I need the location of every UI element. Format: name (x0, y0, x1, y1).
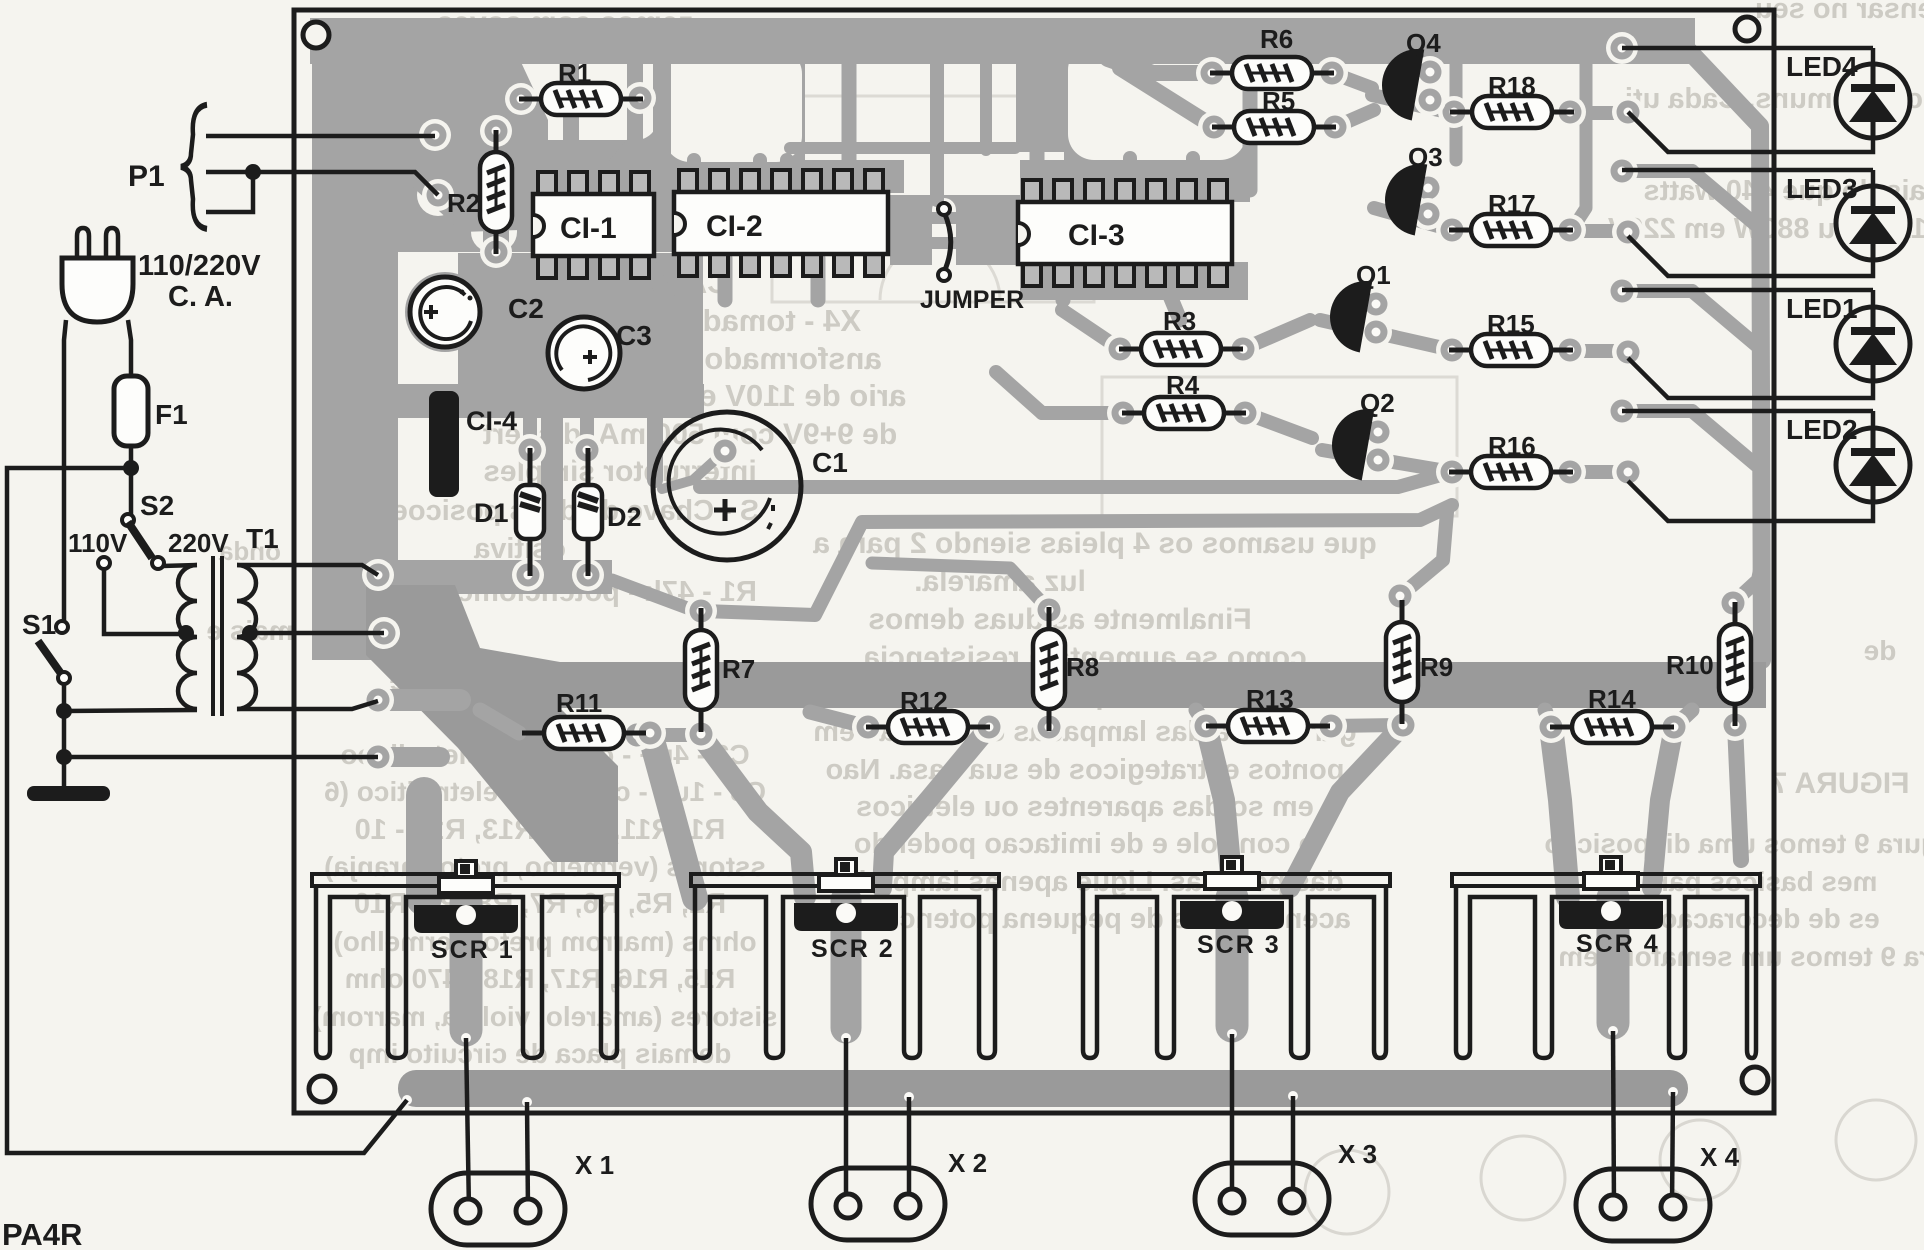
wire primary bottom (64, 710, 197, 711)
wire top-right feeders (1243, 64, 1258, 190)
wire secondary tap to board (250, 631, 384, 636)
svg-text:110/220V: 110/220V (138, 250, 261, 282)
wire X 1 return lead (527, 1102, 528, 1211)
svg-text:D2: D2 (607, 502, 642, 532)
LED LED2 (1836, 428, 1910, 502)
svg-text:R2: R2 (447, 188, 480, 218)
wire left vertical pour column (354, 200, 398, 630)
resistor R11 (522, 717, 646, 749)
capacitor C3 (548, 317, 620, 389)
mounting hole bottom-left (309, 1076, 335, 1102)
svg-text:CI-1: CI-1 (560, 212, 617, 245)
wire trace A (C1 row) (700, 473, 1448, 487)
svg-text:R8: R8 (1066, 652, 1099, 682)
diode D1 (516, 448, 544, 576)
svg-text:LED4: LED4 (1786, 51, 1858, 82)
connector X3 (1195, 1163, 1329, 1235)
resistor R14 (1550, 711, 1674, 743)
wire LED3 box (1628, 170, 1873, 276)
wire pours under C2 C3 (405, 272, 485, 352)
wire band T2 (diode row) (356, 560, 612, 594)
node 220V terminal (152, 557, 164, 569)
svg-text:PA4R: PA4R (2, 1217, 82, 1250)
connector X2 (811, 1168, 945, 1240)
svg-text:es de decoracao: es de decoracao (1660, 903, 1879, 934)
wire mid copper band (556, 662, 1766, 708)
svg-text:R18: R18 (1488, 71, 1536, 101)
wire X 1 cathode lead (466, 1038, 469, 1211)
svg-text:R15: R15 (1487, 309, 1535, 339)
thyristor SCR4 heatsink comb (1452, 874, 1760, 886)
svg-text:D1: D1 (474, 498, 509, 528)
svg-text:pontos estrategicos de sua cas: pontos estrategicos de sua casa. Nao (826, 754, 1345, 786)
resistor R1 (519, 83, 643, 115)
svg-text:SCR 2: SCR 2 (811, 935, 895, 963)
svg-text:CI-2: CI-2 (706, 210, 763, 243)
LED LED1 (1836, 307, 1910, 381)
wire R11 to R7 stub (637, 728, 700, 742)
mounting hole top-right (1735, 17, 1759, 41)
wire feeders to R8 R9 R10 top (872, 563, 1049, 610)
wire secondary top to board (237, 565, 378, 575)
svg-text:JUMPER: JUMPER (920, 286, 1024, 314)
thyristor SCR3 (1180, 857, 1284, 929)
capacitor C2 (410, 277, 480, 347)
AC plug 110/220V (77, 228, 118, 258)
wire trace to R2 (483, 135, 509, 250)
transistor Q4 (1376, 43, 1424, 120)
svg-text:X 2: X 2 (948, 1148, 987, 1178)
wire jumper row traces (890, 212, 1016, 224)
wire jumper feeder (930, 60, 944, 200)
resistor R9 (1386, 600, 1418, 724)
connector X1 (431, 1173, 565, 1245)
svg-text:P1: P1 (128, 160, 165, 193)
svg-text:R1: R1 (558, 58, 591, 88)
wire SCR4 feeders (1551, 727, 1568, 897)
wire SCR2 feeders (701, 736, 805, 897)
mounting hole bottom-right (1742, 1067, 1768, 1093)
thyristor SCR2 heatsink comb (691, 874, 999, 886)
wire resistor row stubs (810, 712, 868, 727)
resistor R15 (1449, 334, 1573, 366)
thyristor SCR3 heatsink comb (1079, 874, 1390, 886)
wire P1 top lead (206, 134, 435, 139)
wire Q base/emitter stubs (1372, 95, 1452, 113)
wire LED2 box (1628, 411, 1873, 521)
connector X4 (1576, 1169, 1710, 1241)
wire X 3 cathode lead (1230, 1034, 1235, 1201)
transistor Q2 (1326, 403, 1374, 480)
svg-text:220V: 220V (168, 528, 229, 558)
thyristor SCR2 (794, 859, 898, 931)
wire LED feed stubs and right column (1622, 48, 1690, 52)
LED LED4 (1836, 64, 1910, 138)
diode D2 (574, 448, 602, 576)
wire LED1 anode lead (1622, 288, 1873, 293)
svg-text:que usamos os 4 pleias siendo: que usamos os 4 pleias siendo 2 para a (813, 527, 1377, 560)
svg-text:FIGURA 7: FIGURA 7 (1771, 767, 1910, 800)
wire copper pour base top-left field (312, 20, 1250, 660)
wire traces R3 R4 to CI-3 (1062, 310, 1120, 349)
wire 220V to primary top (162, 565, 197, 566)
wire LED2 anode lead (1622, 409, 1873, 414)
svg-text:S1: S1 (22, 609, 56, 640)
resistor R17 (1449, 214, 1573, 246)
svg-text:Q1: Q1 (1356, 260, 1391, 290)
resistor R16 (1449, 456, 1573, 488)
svg-text:X 3: X 3 (1338, 1139, 1377, 1169)
LED LED3 (1836, 186, 1910, 260)
capacitor C1 (653, 412, 801, 560)
IC CI-3 (1018, 180, 1232, 286)
wire left big diagonal pour (366, 585, 618, 862)
resistor R4 (1122, 397, 1246, 429)
wire SCR3 feeders (1206, 726, 1233, 897)
PCB board outline (294, 10, 1774, 1113)
wire 110V to primary tap (104, 569, 183, 634)
transistor Q1 (1324, 275, 1372, 352)
wire SCR cathode traces (450, 902, 483, 1030)
wire X 4 cathode lead (1613, 1031, 1614, 1207)
wire bottom copper band (398, 1070, 1688, 1107)
svg-text:C. A.: C. A. (168, 281, 233, 313)
svg-text:Q2: Q2 (1360, 388, 1395, 418)
svg-text:R4: R4 (1166, 370, 1200, 400)
wire S1 down (62, 684, 67, 786)
wire P1 middle lead (206, 172, 438, 195)
wire CI-3 pin feeders (1030, 64, 1045, 198)
wire plug left lead (64, 320, 66, 621)
svg-text:R11: R11 (556, 688, 602, 718)
svg-text:rensar no seu: rensar no seu (1755, 0, 1924, 25)
svg-text:T1: T1 (246, 523, 279, 554)
wire plug right lead (128, 320, 131, 376)
wire LED3 anode lead (1622, 168, 1873, 173)
svg-text:SCR 1: SCR 1 (431, 936, 515, 964)
wire X 3 return lead (1291, 1096, 1296, 1201)
IC CI-1 (533, 172, 654, 278)
ground bar (27, 786, 110, 801)
svg-text:Q4: Q4 (1406, 28, 1441, 58)
svg-text:S2: S2 (140, 490, 174, 521)
resistor R5 (1212, 111, 1336, 143)
svg-text:C1: C1 (812, 447, 848, 478)
junction S1-board (56, 749, 72, 765)
junction primary tap (178, 625, 194, 641)
junction secondary tap (242, 625, 258, 641)
wire to left rail (7, 468, 407, 1153)
resistor R3 (1119, 333, 1243, 365)
svg-text:C2: C2 (508, 293, 544, 324)
resistor R2 (480, 130, 512, 254)
svg-text:CI-3: CI-3 (1068, 219, 1125, 252)
wire R1 feeders (571, 140, 595, 168)
etched white islands (414, 44, 1246, 282)
wire top-left copper pour (405, 60, 548, 232)
wire R11 gate diagonal (650, 733, 695, 898)
wire X 4 return lead (1672, 1092, 1673, 1207)
svg-text:de: de (1864, 635, 1897, 666)
resistor R12 (866, 711, 990, 743)
wire trace C1 top pad stub (662, 451, 725, 489)
svg-text:C3: C3 (616, 320, 652, 351)
thyristor SCR4 (1559, 857, 1663, 929)
svg-text:LED3: LED3 (1786, 173, 1858, 204)
wire X 2 return lead (907, 1097, 912, 1206)
svg-text:R16: R16 (1488, 431, 1536, 461)
svg-text:R3: R3 (1163, 306, 1196, 336)
thyristor SCR1 heatsink comb (312, 874, 619, 886)
junction P1 (245, 164, 261, 180)
wire LED1 box (1628, 290, 1873, 398)
wire traces to R5 R6 (1150, 65, 1212, 81)
wire inter-IC trace (790, 142, 1015, 154)
resistor R13 (1206, 710, 1330, 742)
svg-text:F1: F1 (155, 399, 188, 430)
svg-text:R13: R13 (1246, 684, 1294, 714)
svg-text:X 1: X 1 (575, 1150, 614, 1180)
junction below F1 (123, 460, 139, 476)
svg-text:R14: R14 (1588, 684, 1636, 714)
svg-text:Q3: Q3 (1408, 142, 1443, 172)
wire R15-R18 output stubs (1572, 106, 1628, 120)
svg-text:R10: R10 (1666, 650, 1714, 680)
mounting hole top-left (303, 22, 329, 48)
svg-text:SCR 3: SCR 3 (1197, 931, 1281, 959)
fuse F1 (114, 376, 148, 446)
svg-text:R7: R7 (722, 654, 755, 684)
transistor Q3 (1379, 158, 1427, 235)
svg-text:110V: 110V (68, 528, 128, 558)
wire CI-2 pin feeders (687, 160, 701, 188)
svg-text:LED1: LED1 (1786, 293, 1858, 324)
svg-text:CI-4: CI-4 (466, 406, 517, 436)
wire top copper band (310, 18, 1695, 64)
IC CI-4 regulator (429, 391, 459, 497)
resistor R8 (1033, 607, 1065, 731)
svg-text:X 4: X 4 (1700, 1142, 1740, 1172)
svg-text:LED2: LED2 (1786, 414, 1858, 445)
svg-text:R12: R12 (900, 686, 948, 716)
svg-text:o controle e de imitacao poden: o controle e de imitacao podendo (854, 828, 1316, 860)
wire column joining T1-T2 (541, 400, 563, 575)
wire LED4 anode lead (1622, 46, 1873, 51)
wire T2 to R7 diagonal (612, 580, 698, 612)
junction S1-primary (56, 703, 72, 719)
resistor R18 (1450, 96, 1574, 128)
resistor R7 (685, 608, 717, 732)
thyristor SCR1 (414, 861, 518, 933)
svg-text:R6: R6 (1260, 24, 1293, 54)
node 110V terminal (98, 557, 110, 569)
wire trace B (703, 505, 1452, 615)
solder pads (419, 119, 451, 151)
wire S1 to board pad (64, 755, 378, 760)
svg-text:R9: R9 (1420, 652, 1453, 682)
wire band T1 (C2/C3 row to CI-4) (352, 384, 704, 418)
wire LED4 box (1628, 48, 1873, 152)
svg-text:R17: R17 (1488, 189, 1536, 219)
resistor R10 (1719, 602, 1751, 726)
wire CI-1 pin feeders (563, 62, 579, 185)
jumper (944, 212, 951, 272)
svg-text:SCR 4: SCR 4 (1576, 930, 1660, 958)
wire X 2 cathode lead (844, 1038, 849, 1206)
IC CI-2 (674, 170, 888, 276)
wire secondary bottom to board (237, 701, 378, 709)
resistor R6 (1210, 57, 1334, 89)
wire F1 to junction (129, 446, 134, 515)
wire P1 bottom lead (206, 172, 253, 212)
